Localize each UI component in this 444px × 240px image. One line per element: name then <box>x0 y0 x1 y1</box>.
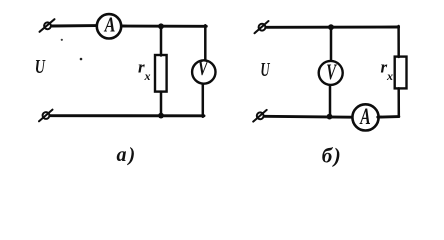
wire node down to voltmeter <box>330 27 333 60</box>
svg-text:U: U <box>35 56 46 78</box>
ammeter A (circuit a) <box>97 13 121 39</box>
speck <box>61 39 63 41</box>
node junction top (circuit a) <box>158 23 164 29</box>
resistor rx (circuit a) <box>155 55 167 92</box>
top wire (circuit b) <box>267 26 399 29</box>
bottom wire terminal to ammeter (circuit b) <box>265 115 352 119</box>
resistor rx (circuit b) <box>395 57 407 89</box>
svg-text:U: U <box>260 59 270 81</box>
node junction top (circuit b) <box>328 24 334 30</box>
svg-text:x: x <box>386 69 393 83</box>
terminal top-left (circuit b) <box>255 21 269 33</box>
node junction bottom (circuit a) <box>158 113 164 119</box>
svg-text:а): а) <box>117 144 138 166</box>
wire corner down to resistor (circuit b) <box>397 26 400 57</box>
wire resistor to bottom node <box>160 92 163 116</box>
svg-text:x: x <box>144 69 151 83</box>
bottom wire (circuit a) <box>50 114 204 117</box>
wire terminal to ammeter <box>52 24 96 27</box>
svg-text:б): б) <box>322 144 342 168</box>
voltmeter V (circuit a) <box>192 56 215 84</box>
terminal bottom-left (circuit b) <box>253 110 267 122</box>
svg-text:V: V <box>198 56 209 80</box>
svg-text:V: V <box>326 59 337 84</box>
terminal bottom-left (circuit a) <box>39 110 53 122</box>
wire ammeter to corner <box>122 25 206 28</box>
wire node down to resistor <box>160 26 163 55</box>
node junction bottom (circuit b) <box>327 114 333 120</box>
wire ammeter to corner (circuit b) <box>378 115 399 118</box>
voltmeter V (circuit b) <box>319 59 343 85</box>
wire corner down to voltmeter <box>204 25 207 60</box>
label rx (circuit a) <box>138 58 151 83</box>
wire resistor to bottom corner <box>397 88 400 116</box>
speck <box>80 58 83 61</box>
label rx (circuit b) <box>381 58 394 83</box>
ammeter A (circuit b) <box>352 104 378 131</box>
wire voltmeter to bottom wire <box>202 85 205 117</box>
wire voltmeter to bottom node <box>329 86 332 117</box>
svg-text:A: A <box>359 104 371 129</box>
svg-text:A: A <box>103 13 115 37</box>
terminal top-left (circuit a) <box>40 19 55 32</box>
